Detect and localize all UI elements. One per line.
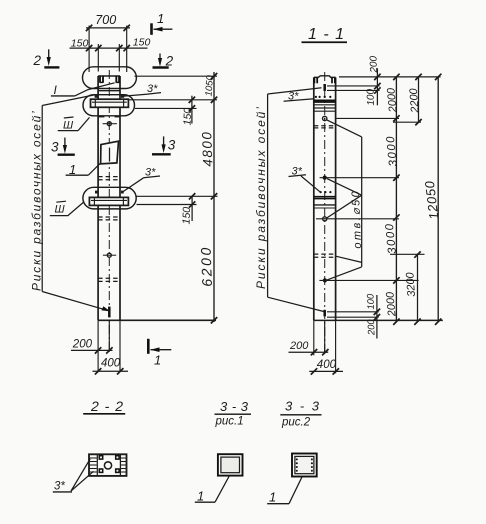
top axis mark (riska) right column [323, 84, 326, 91]
dim line 200/100 top [374, 68, 380, 105]
axis text left figure [30, 109, 44, 291]
label 100 top [365, 88, 377, 105]
title 2-2 [83, 398, 125, 414]
extension line 3200 top [390, 253, 425, 255]
svg-text:2000: 2000 [385, 86, 399, 113]
console band 1 [314, 100, 336, 111]
svg-text:2: 2 [33, 53, 42, 68]
dashed rows mid-low right column [314, 254, 336, 257]
svg-text:4800: 4800 [199, 130, 215, 167]
svg-text:100: 100 [365, 293, 377, 310]
svg-text:Ш: Ш [55, 203, 66, 215]
column body right edge [119, 76, 121, 320]
detail label 1 (patch) with leader [66, 162, 101, 177]
detail label III lower with leader [50, 201, 84, 215]
console 1 weld mark right [121, 95, 124, 98]
svg-text:150: 150 [133, 36, 151, 48]
dim line B 2000/3000 chain [393, 74, 399, 325]
label 150 lower [181, 207, 194, 225]
column body left edge [97, 76, 99, 320]
axis leader polyline left figure [42, 95, 110, 311]
svg-text:рис.2: рис.2 [281, 417, 311, 429]
dimension 200 bottom of right figure [289, 340, 329, 355]
note 3* right figure mid [289, 166, 320, 192]
label 6200 [198, 245, 215, 287]
extension line mark2 [320, 177, 399, 179]
console 1 weld mark left [95, 95, 98, 98]
center axis line right column [324, 72, 326, 356]
label 100 bottom [365, 293, 377, 310]
svg-text:100: 100 [365, 88, 377, 105]
dashed rows above lower console [98, 177, 120, 180]
bottom axis mark right column [323, 310, 326, 317]
svg-text:150: 150 [71, 37, 89, 49]
console 1 bar [91, 99, 129, 107]
sub dimension 150 lower [189, 193, 195, 221]
label 3000 lower [384, 222, 399, 255]
extension line hole3 [316, 218, 399, 220]
right top ear left [314, 77, 317, 83]
detail bubble I (top) [83, 67, 137, 89]
label 3200 [404, 271, 418, 297]
note 3* right figure top [284, 91, 314, 103]
svg-text:рис.1: рис.1 [215, 416, 244, 428]
title 3-3 fig.2 [280, 399, 321, 429]
hole 3 right column [323, 217, 327, 221]
right column left edge [313, 77, 315, 320]
svg-text:200: 200 [366, 318, 378, 336]
dimension 400 bottom left [93, 358, 129, 375]
svg-text:150: 150 [181, 207, 194, 225]
bottom axis mark (riska) [108, 307, 111, 318]
console 2 weld mark right [121, 191, 124, 194]
svg-text:700: 700 [95, 13, 116, 27]
marking patch on column [101, 141, 119, 164]
title 3-3 fig.1 [215, 399, 252, 428]
svg-text:200: 200 [368, 55, 380, 73]
svg-text:2000: 2000 [384, 290, 398, 317]
note 3* upper with leader [123, 83, 161, 96]
top rebar ear left [100, 76, 103, 83]
label 1 fig.2 [267, 477, 302, 504]
svg-text:1050: 1050 [204, 74, 216, 97]
right top ear right [332, 77, 335, 83]
sub dimension 150 upper [189, 96, 195, 124]
label 12050 [422, 180, 442, 221]
rebar dots row 2 [320, 191, 332, 193]
detail bubble III (upper console) [83, 95, 135, 116]
svg-text:1: 1 [157, 11, 164, 26]
console band 2 [314, 197, 336, 208]
dim line 12050 [435, 74, 441, 325]
long top extension line [339, 76, 441, 78]
detail label III upper with leader [58, 117, 90, 132]
lifting hole lower left column [103, 253, 116, 257]
section mark 2 left [33, 49, 60, 68]
dimension 400 bottom of right figure [309, 359, 343, 374]
svg-text:1: 1 [269, 490, 276, 505]
rebar square bottom-left [99, 469, 102, 472]
label 2000 lower [384, 290, 398, 317]
section 3-3 fig.1 square [218, 454, 243, 475]
svg-text:Ш: Ш [63, 120, 74, 132]
dashed rows near bottom [98, 278, 120, 281]
column bottom edge + extension right [98, 319, 216, 321]
hole 1 right column [323, 116, 327, 120]
label 3000 upper [385, 134, 400, 167]
right column bottom edge + extension [314, 319, 443, 321]
extension line top 1050 [135, 75, 218, 77]
section mark 3 left [51, 138, 75, 155]
extension line hole1 [337, 117, 400, 119]
svg-text:3 - 3: 3 - 3 [220, 399, 249, 414]
right column right edge [335, 77, 337, 320]
svg-text:3: 3 [51, 140, 59, 155]
extension line mark4 [319, 279, 418, 281]
right column top edge with bump [314, 76, 336, 78]
label 1050 [204, 74, 216, 97]
extension line console2 top [137, 195, 218, 197]
svg-text:1: 1 [197, 489, 204, 504]
title 1-1 [302, 26, 348, 43]
svg-text:400: 400 [101, 358, 121, 370]
svg-text:Риски разбивочных осей’: Риски разбивочных осей’ [30, 109, 44, 291]
svg-text:3200: 3200 [404, 271, 418, 297]
label 200 top [368, 55, 380, 73]
collar ticks below console 1 [99, 116, 120, 118]
svg-text:Риски разбивочных осей’: Риски разбивочных осей’ [254, 105, 268, 289]
axis leader right figure [268, 88, 325, 312]
extension line console2 bottom [137, 204, 197, 206]
label 1 fig.1 [195, 476, 230, 504]
dimension 200 bottom left [71, 339, 113, 354]
label 150 upper [182, 108, 195, 126]
svg-text:3*: 3* [54, 481, 65, 493]
extensions below bottom right column [314, 320, 336, 373]
label otv d50 [350, 189, 364, 249]
svg-text:2200: 2200 [408, 87, 422, 114]
shoulder line under fork [98, 90, 120, 92]
dim line 3200 [414, 251, 420, 325]
dimension 150 pair top [70, 36, 151, 71]
dim line 2200 top [393, 74, 422, 126]
filled hole mark 4 [323, 278, 327, 282]
svg-text:3: 3 [168, 137, 176, 152]
extension line console1 bottom [135, 107, 197, 109]
center axis line left column [108, 70, 110, 352]
svg-text:400: 400 [317, 359, 337, 371]
filled hole mark 2 [323, 176, 327, 180]
console 2 bar [89, 197, 128, 205]
bottom mark extension lines right figure [327, 312, 379, 317]
rebar square bottom-right [116, 469, 119, 472]
extension mark top lines [327, 86, 380, 91]
column top edge [98, 75, 120, 77]
dashed rows below hole 1 [314, 126, 336, 128]
section 2-2 drawing [89, 454, 127, 476]
rebar square top-right [116, 456, 119, 459]
section mark 1 top [152, 11, 173, 35]
dashed rows below lower console [98, 217, 120, 220]
svg-text:1: 1 [154, 353, 161, 368]
svg-text:1 - 1: 1 - 1 [308, 26, 345, 43]
svg-text:200: 200 [72, 339, 93, 351]
dimension 700 top [86, 13, 130, 72]
svg-text:3 - 3: 3 - 3 [285, 399, 321, 414]
label 200 bottom right [366, 318, 378, 336]
hole callout zigzag leader [327, 120, 362, 280]
section mark 3 right [152, 136, 176, 154]
label 2200 [408, 87, 422, 114]
center hole section 2-2 [104, 462, 111, 469]
dim line 100/200 bottom [374, 295, 380, 339]
section mark 1 bottom [148, 339, 171, 368]
label 4800 [199, 130, 215, 167]
extension line console1 top [129, 99, 217, 101]
section mark 2 right [153, 54, 174, 69]
lifting hole upper left column [103, 122, 117, 126]
svg-text:150: 150 [182, 108, 195, 126]
extensions below bottom [98, 320, 120, 372]
axis text right figure [254, 105, 268, 289]
main dimension line right of left figure [211, 72, 217, 324]
label 2000 upper [385, 86, 399, 113]
svg-text:6200: 6200 [198, 245, 215, 287]
detail bubble III (lower console) [83, 187, 136, 209]
note 3* lower with leader [123, 167, 160, 192]
console 2 weld mark left [95, 191, 98, 194]
rebar dots row 1 [315, 96, 332, 98]
rebar square top-left [99, 456, 102, 459]
top rebar ear right [116, 76, 119, 83]
section 3-3 fig.2 square [292, 454, 317, 477]
detail label I with leader [51, 83, 115, 97]
note 3* section 2-2 [53, 459, 94, 493]
svg-text:200: 200 [289, 340, 309, 352]
svg-text:2 - 2: 2 - 2 [90, 398, 124, 414]
